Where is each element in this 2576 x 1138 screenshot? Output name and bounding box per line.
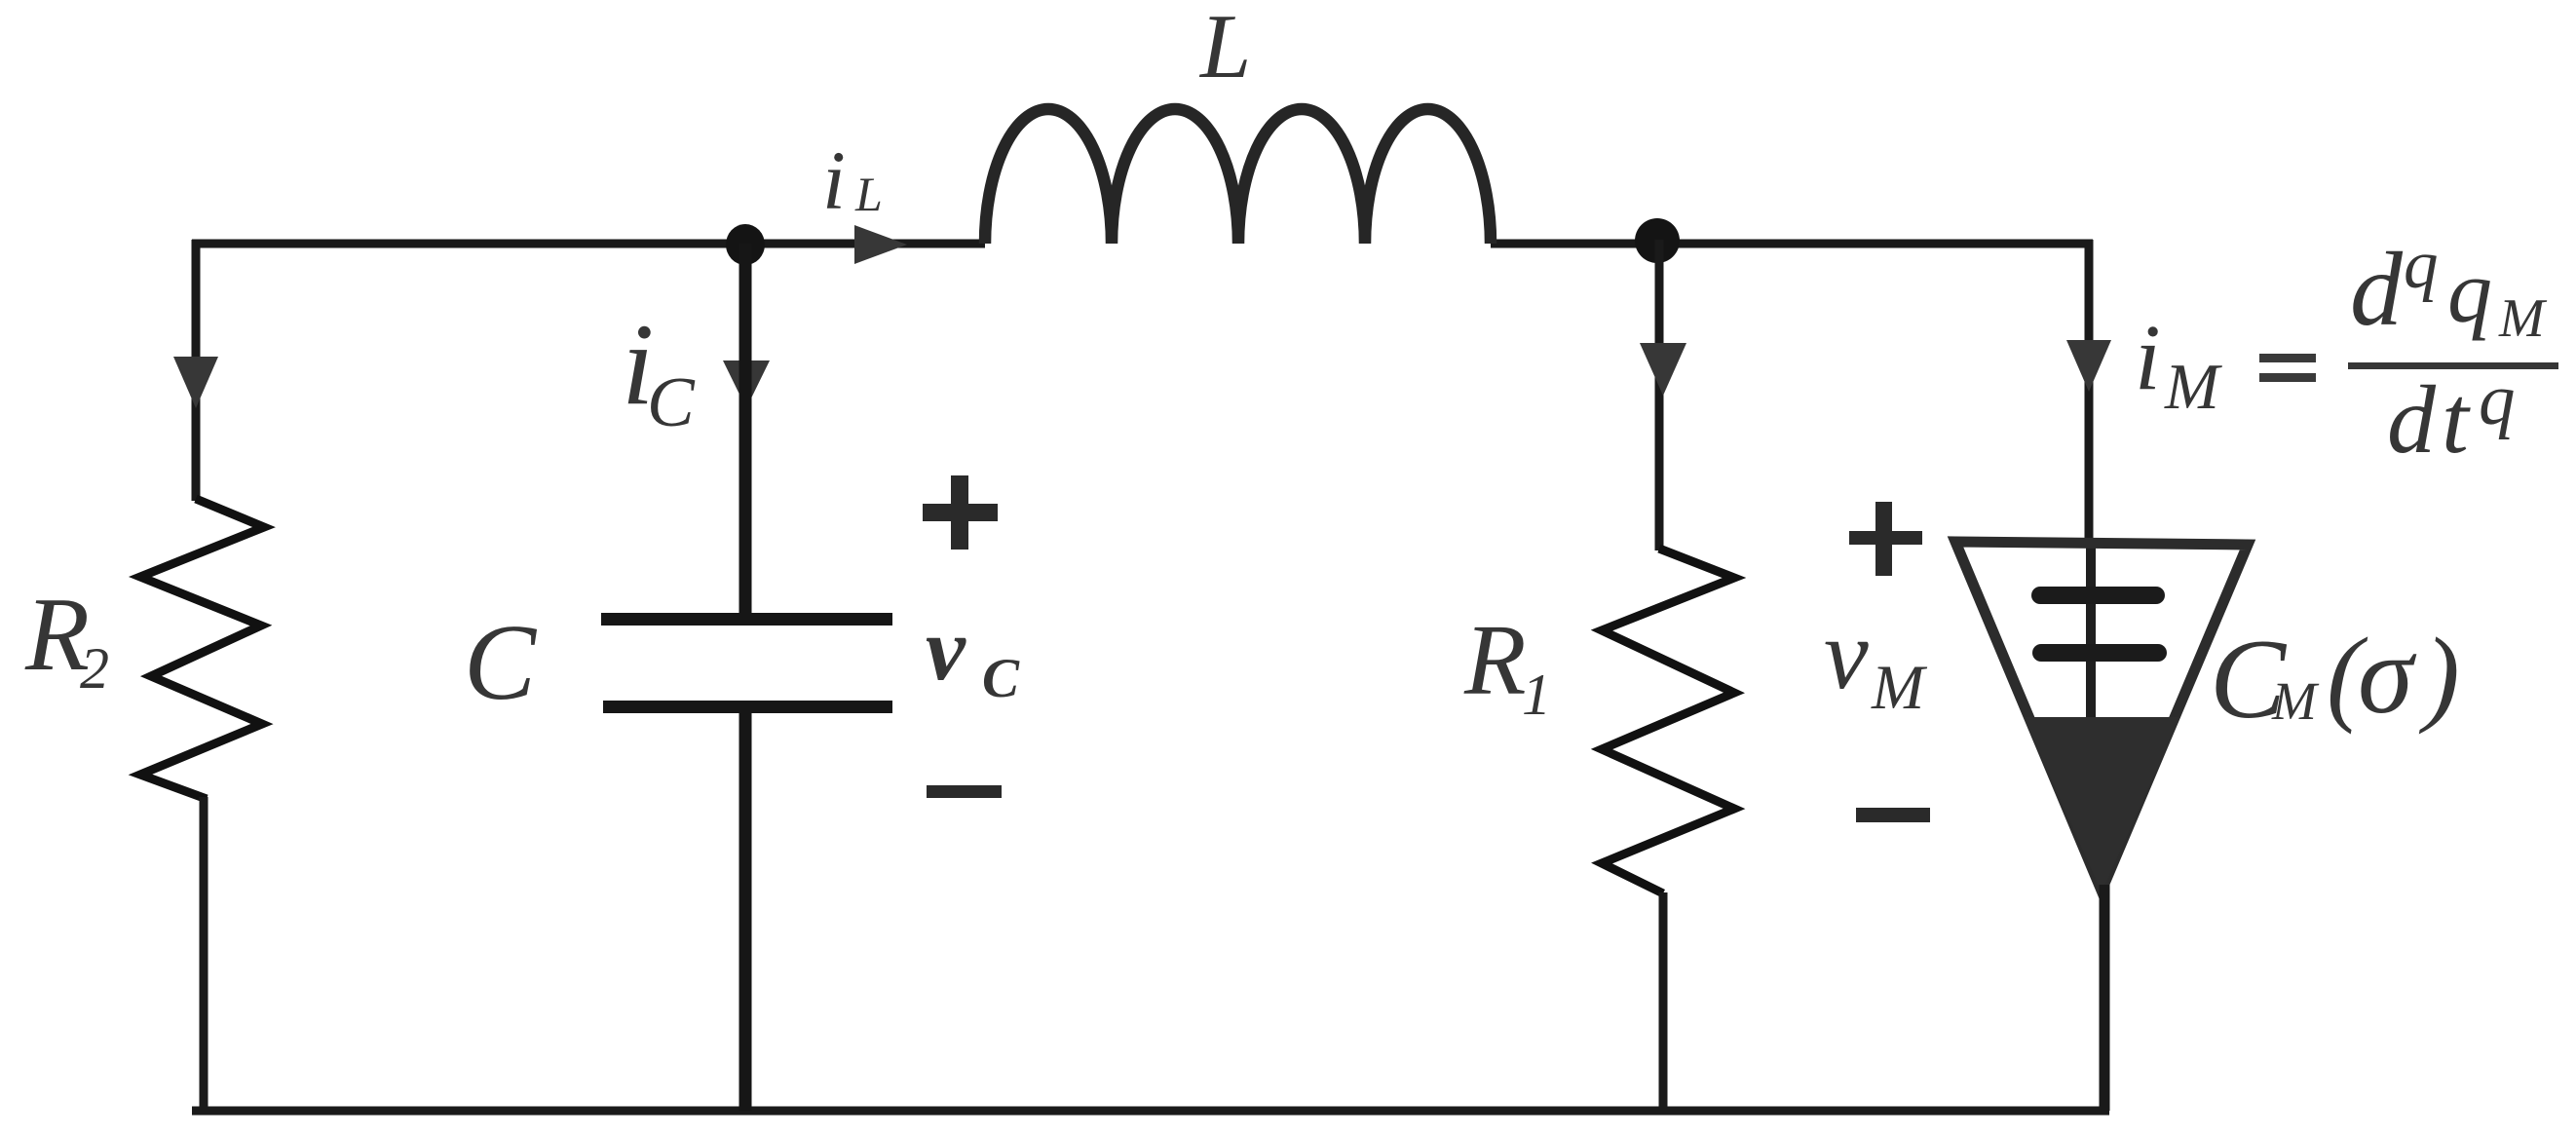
wire: right vertical upper segment [2085,240,2094,546]
svg-text:i: i [822,133,846,227]
svg-text:): ) [2418,616,2460,735]
current arrow i_L [854,225,907,264]
capacitor C top plate [601,613,892,626]
wire: bottom horizontal (ground return) [192,1107,2109,1116]
memcapacitor CM: triangle outline [1955,542,2248,891]
numerator d^q q_M [2350,227,2548,349]
memcapacitor CM: upper plate [2031,587,2165,604]
svg-text:C: C [464,603,538,723]
wire: capacitor C bottom lead [739,711,752,1111]
svg-text:q: q [2404,227,2439,303]
label R2 [24,577,109,701]
minus sign of v_C [927,785,1002,798]
svg-text:q: q [2479,360,2516,440]
wire: top horizontal right segment (inductor to right corner) [1491,240,2093,248]
label v_M [1824,599,1928,723]
resistor R1 [1602,549,1734,893]
inductor L (four humps) [985,109,1491,244]
svg-text:i: i [2135,305,2161,409]
svg-text:L: L [854,167,883,221]
wire: left vertical lower segment [200,797,208,1111]
label R1 [1463,604,1551,727]
svg-text:M: M [1871,653,1928,723]
equals sign [2259,354,2316,382]
wire: left vertical upper segment [192,240,201,501]
svg-text:L: L [1198,0,1251,97]
svg-text:q: q [2447,242,2492,341]
memcapacitor CM: filled state region [2024,717,2180,892]
svg-text:d: d [2387,365,2437,474]
memcapacitor CM: lower plate [2032,644,2167,662]
wire: top horizontal left segment (node A to inductor) [192,240,985,248]
svg-text:d: d [2350,232,2404,348]
svg-text:v: v [926,599,966,699]
label i_L [822,133,883,227]
svg-text:σ: σ [2358,613,2417,737]
current arrow into R1 [1640,343,1686,396]
svg-text:M: M [2164,351,2222,423]
svg-text:1: 1 [1522,663,1551,727]
minus sign of v_M [1856,808,1930,822]
label i_M [2135,305,2222,423]
svg-text:v: v [1824,599,1869,710]
label CM(sigma) [2210,613,2460,742]
current arrow i_C [723,360,770,408]
svg-text:C: C [647,362,696,441]
label v_C [926,599,1020,709]
wire: memcapacitor bottom lead [2100,885,2110,1111]
current arrow i_M [2066,340,2111,392]
wire: R1 top lead [1655,240,1664,550]
resistor R2 [140,499,264,799]
svg-text:M: M [2271,671,2320,731]
capacitor C bottom plate [603,701,892,713]
wire: R1 bottom lead [1659,892,1668,1111]
svg-text:C: C [982,648,1020,709]
svg-text:t: t [2442,365,2471,474]
current arrow into R2 [173,357,218,408]
fraction bar [2348,362,2558,369]
node B (junction dot, top of R1) [1635,218,1680,263]
plus sign of v_C [923,475,998,550]
svg-text:R: R [1463,604,1527,716]
label i_C [622,299,696,441]
denominator d t^q [2387,360,2516,474]
svg-text:2: 2 [80,636,109,701]
svg-text:M: M [2498,288,2548,349]
wire: capacitor C top lead [739,244,752,615]
plus sign of v_M [1849,502,1922,576]
node A (junction dot, top of C branch) [726,224,765,265]
memcapacitor CM: inner vertical lead [2086,546,2096,721]
